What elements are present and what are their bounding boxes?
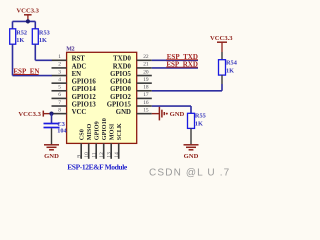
- svg-text:TXD0: TXD0: [113, 56, 131, 63]
- svg-text:GPIO15: GPIO15: [107, 101, 132, 108]
- svg-text:14: 14: [114, 152, 120, 158]
- svg-text:RXD0: RXD0: [113, 63, 132, 70]
- svg-text:VCC: VCC: [72, 109, 87, 116]
- svg-text:7: 7: [58, 100, 61, 106]
- svg-text:1K: 1K: [226, 67, 234, 74]
- svg-text:GPIO2: GPIO2: [110, 94, 131, 101]
- svg-text:1K: 1K: [16, 37, 24, 44]
- svg-text:CSDN @L U .7: CSDN @L U .7: [149, 168, 230, 179]
- svg-text:ESP-12E&F Module: ESP-12E&F Module: [67, 162, 128, 171]
- svg-text:GPIO9: GPIO9: [94, 121, 101, 140]
- svg-text:5: 5: [58, 85, 61, 91]
- svg-text:VCC3.3: VCC3.3: [16, 7, 39, 14]
- svg-text:EN: EN: [72, 71, 82, 78]
- svg-text:8: 8: [58, 107, 61, 113]
- svg-text:20: 20: [143, 69, 149, 75]
- svg-text:GND: GND: [184, 153, 199, 160]
- svg-text:CS0: CS0: [79, 129, 86, 140]
- svg-text:104: 104: [57, 128, 67, 135]
- svg-text:R52: R52: [16, 30, 27, 37]
- svg-text:13: 13: [107, 152, 113, 158]
- svg-text:VCC3.3: VCC3.3: [18, 111, 41, 118]
- svg-text:1K: 1K: [195, 120, 203, 127]
- svg-text:1: 1: [58, 54, 61, 60]
- svg-text:GPIO0: GPIO0: [110, 86, 131, 93]
- svg-text:GND: GND: [116, 109, 131, 116]
- svg-text:11: 11: [92, 152, 98, 157]
- svg-text:12: 12: [99, 152, 105, 158]
- svg-text:M2: M2: [66, 47, 74, 53]
- svg-text:VCC3.3: VCC3.3: [210, 35, 233, 42]
- svg-text:22: 22: [143, 54, 149, 60]
- svg-text:4: 4: [58, 77, 61, 83]
- svg-text:GPIO4: GPIO4: [110, 79, 131, 86]
- svg-text:GPIO14: GPIO14: [72, 86, 97, 93]
- svg-text:GPIO10: GPIO10: [101, 118, 108, 140]
- svg-text:21: 21: [143, 62, 149, 68]
- svg-text:ADC: ADC: [72, 63, 87, 70]
- svg-text:GPIO12: GPIO12: [72, 94, 97, 101]
- svg-text:R54: R54: [226, 60, 238, 67]
- svg-text:GPIO5: GPIO5: [110, 71, 131, 78]
- svg-text:2: 2: [58, 62, 61, 68]
- svg-text:10: 10: [84, 152, 90, 158]
- svg-text:MOSI: MOSI: [109, 123, 116, 140]
- svg-text:18: 18: [143, 85, 149, 91]
- svg-text:R53: R53: [39, 30, 50, 37]
- svg-text:16: 16: [143, 100, 149, 106]
- svg-text:3: 3: [58, 69, 61, 75]
- svg-text:GND: GND: [44, 153, 59, 160]
- svg-text:1K: 1K: [39, 37, 47, 44]
- svg-text:GPIO13: GPIO13: [72, 101, 97, 108]
- svg-text:15: 15: [143, 107, 149, 113]
- svg-text:9: 9: [77, 155, 83, 158]
- svg-text:19: 19: [143, 77, 149, 83]
- svg-text:MISO: MISO: [86, 124, 93, 141]
- svg-text:R55: R55: [195, 113, 206, 120]
- svg-text:GND: GND: [170, 111, 185, 118]
- svg-text:GPIO16: GPIO16: [72, 79, 97, 86]
- svg-text:6: 6: [58, 92, 61, 98]
- svg-text:SCLK: SCLK: [116, 123, 123, 140]
- svg-text:17: 17: [143, 92, 149, 98]
- svg-text:RST: RST: [72, 56, 86, 63]
